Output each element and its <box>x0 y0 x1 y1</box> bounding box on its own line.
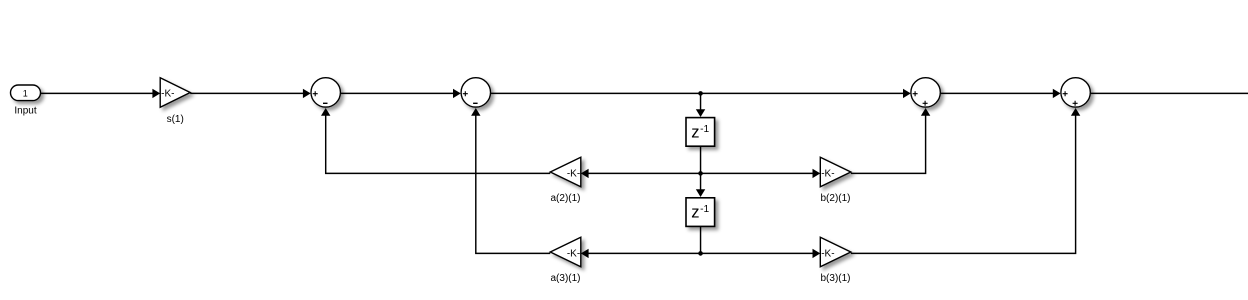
sum3 plus sign (bottom input) <box>923 101 928 106</box>
svg-text:-K-: -K- <box>821 248 834 259</box>
wire: gain s(1) to sum1 <box>190 92 303 94</box>
svg-text:b(2)(1): b(2)(1) <box>820 193 850 204</box>
svg-text:-K-: -K- <box>161 88 174 99</box>
sum4 plus sign (bottom input) <box>1073 101 1078 106</box>
sum3 plus sign (left input) <box>913 91 918 96</box>
wire: row3 node to gain a(3)(1) <box>588 252 701 254</box>
svg-text:-1: -1 <box>700 124 709 135</box>
wire: sum3 to sum4 <box>941 92 1054 94</box>
svg-text:1: 1 <box>23 89 28 99</box>
svg-text:-K-: -K- <box>821 168 834 179</box>
sum3 circle <box>911 78 940 107</box>
sum4 plus sign (left input) <box>1063 91 1068 96</box>
sum1 circle <box>311 78 340 107</box>
svg-text:a(2)(1): a(2)(1) <box>550 193 580 204</box>
svg-text:z: z <box>691 123 699 141</box>
wire: z2 output down to row3 node <box>700 227 702 253</box>
node: row2 junction <box>698 171 703 176</box>
sum2 minus sign (bottom input) <box>473 102 478 104</box>
sum2 circle <box>461 78 490 107</box>
node: row3 junction <box>698 251 703 256</box>
wire: row2 node down into delay z2 <box>700 173 702 191</box>
wire: row3 node to gain b(3)(1) <box>701 252 814 254</box>
svg-text:a(3)(1): a(3)(1) <box>550 273 580 284</box>
gain s(1) <box>160 78 190 107</box>
gain a(3)(1) <box>550 237 581 266</box>
unit delay block z1 <box>686 118 715 147</box>
svg-text:Input: Input <box>14 106 36 117</box>
svg-text:b(3)(1): b(3)(1) <box>820 273 850 284</box>
gain b(2)(1) <box>820 157 851 186</box>
svg-text:-K-: -K- <box>567 248 580 259</box>
svg-text:s(1): s(1) <box>167 114 184 125</box>
svg-text:z: z <box>691 203 699 221</box>
wire: sum1 to sum2 <box>341 92 454 94</box>
wire: input port to gain s(1) <box>41 92 153 94</box>
wire: tap node down into delay z1 <box>700 93 702 111</box>
sum2 plus sign (left input) <box>463 91 468 96</box>
node: tap junction on main wire <box>698 91 703 96</box>
wire: sum2 to sum3 (through tap node) <box>491 92 904 94</box>
sum1 plus sign (left input) <box>313 91 318 96</box>
unit delay block z2 <box>686 198 715 227</box>
gain a(2)(1) <box>550 157 581 186</box>
wire: z1 output down to row2 node <box>700 147 702 174</box>
wire: row2 node to gain b(2)(1) <box>701 172 814 174</box>
wire: a(3)(1) output left then up to sum2 bottom <box>476 115 551 254</box>
svg-text:-1: -1 <box>700 204 709 215</box>
gain b(3)(1) <box>820 237 851 266</box>
wire: b(2)(1) output right then up to sum3 bottom <box>851 115 926 174</box>
wire: sum4 output to right edge <box>1091 92 1248 94</box>
sum4 circle <box>1061 78 1090 107</box>
wire: a(2)(1) output left then up to sum1 bottom <box>326 115 551 174</box>
wire: row2 node to gain a(2)(1) <box>588 172 701 174</box>
sum1 minus sign (bottom input) <box>323 102 328 104</box>
inport block 1 (Input) <box>11 85 41 101</box>
wire: b(3)(1) output right then up to sum4 bottom <box>851 115 1076 254</box>
svg-text:-K-: -K- <box>567 168 580 179</box>
